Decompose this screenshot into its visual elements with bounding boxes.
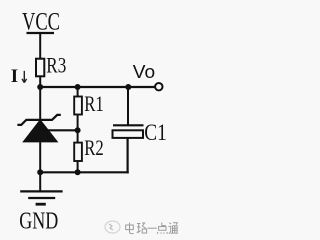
- capacitor C1 bottom plate (hollow): [113, 130, 144, 138]
- svg-text:R3: R3: [46, 52, 66, 77]
- ground stub wire: [39, 172, 41, 191]
- wire node A to node B (top rail left): [40, 86, 77, 88]
- zener diode DZ anode triangle: [23, 120, 57, 142]
- reference wire zener to node E: [44, 129, 78, 131]
- svg-text:GND: GND: [19, 209, 58, 235]
- current arrow (down): [22, 71, 27, 83]
- ground bar 2: [28, 197, 55, 199]
- watermark text 电路一点通: [126, 222, 178, 233]
- svg-text:R2: R2: [84, 135, 104, 160]
- svg-text:I: I: [11, 66, 18, 87]
- svg-text:R1: R1: [84, 91, 104, 116]
- ground bar 1: [20, 190, 62, 192]
- wire node B to node C (top rail right): [78, 86, 129, 88]
- watermark logo circle: [105, 221, 120, 233]
- wire R1 to node E: [77, 115, 79, 131]
- resistor R1: [74, 97, 82, 115]
- 点: [157, 222, 167, 233]
- capacitor C1 top plate: [113, 124, 144, 126]
- zener diode DZ cathode bar (bent ends): [17, 115, 60, 125]
- node F junction dot: [75, 169, 81, 175]
- wire node B down to R1: [77, 87, 79, 97]
- node B junction dot: [75, 84, 81, 90]
- 路: [137, 223, 147, 233]
- wire node C to output terminal: [128, 86, 155, 88]
- node D junction dot: [37, 169, 43, 175]
- wire node E to R2: [77, 130, 79, 143]
- wire R2 to node F: [77, 161, 79, 173]
- node C junction dot: [125, 84, 131, 90]
- ground bar 3: [36, 203, 46, 206]
- resistor R3: [36, 59, 44, 77]
- bottom rail node F to C1 leg: [78, 171, 129, 173]
- bottom rail node D to node F: [40, 171, 77, 173]
- svg-text:Vo: Vo: [133, 62, 155, 82]
- wire node C down to C1 top plate: [127, 87, 129, 125]
- svg-text:VCC: VCC: [22, 8, 60, 35]
- wire VCC bar to R3: [39, 33, 41, 59]
- 一: [148, 227, 157, 229]
- 通: [169, 223, 178, 234]
- node E junction dot: [75, 127, 81, 133]
- wire node A down to zener cathode: [39, 87, 41, 120]
- svg-text:C1: C1: [144, 120, 167, 145]
- resistor R2: [74, 143, 82, 161]
- node A junction dot: [37, 84, 43, 90]
- wire C1 bottom plate to bottom rail: [126, 138, 128, 174]
- wire R3 to node A: [39, 76, 41, 87]
- terminal Vo (open circle): [155, 83, 162, 90]
- VCC power bar: [27, 32, 55, 34]
- 电: [126, 223, 134, 234]
- wire zener anode to node D: [39, 141, 41, 172]
